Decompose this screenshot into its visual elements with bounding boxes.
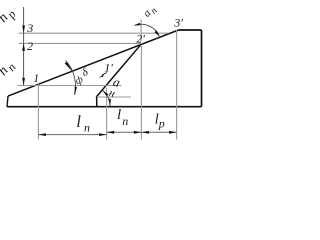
svg-text:3: 3 — [26, 21, 33, 35]
node 3 reference line — [19, 32, 169, 34]
dimension l_p (right) — [141, 131, 176, 133]
node 2 reference line — [19, 42, 141, 44]
svg-text:l: l — [76, 112, 81, 131]
dimension l_n (left) — [38, 134, 106, 136]
svg-text:2: 2 — [27, 39, 33, 53]
svg-text:n: n — [122, 114, 128, 128]
label d_f — [72, 66, 93, 87]
wire: top slanted face from left corner through 2' to 3' — [8, 30, 179, 96]
svg-text:n: n — [84, 121, 90, 135]
arrow down at line 1 — [22, 78, 25, 86]
wire: extension line at x=38.3 — [37, 84, 39, 140]
angle arc a_n — [102, 90, 110, 107]
label a_n — [107, 74, 122, 100]
arrow on slant for d_f — [65, 62, 73, 72]
wire: bottom edge of knife — [7, 106, 202, 108]
svg-text:1: 1 — [33, 71, 39, 85]
arrow up at line 2 — [22, 43, 25, 51]
label h_p — [0, 5, 19, 28]
wire: horizontal reference at bend — [97, 96, 131, 98]
svg-text:l: l — [117, 107, 121, 123]
svg-text:1': 1' — [104, 61, 113, 75]
wire: extension line above 2' — [140, 20, 142, 42]
arrow down at line 3 — [22, 26, 25, 34]
wire: ground bevel from bend to 2' — [97, 44, 142, 96]
arrow on bevel for a_n — [102, 90, 108, 96]
svg-text:3': 3' — [173, 16, 183, 30]
arrow at bottom for a_n — [109, 99, 111, 107]
wire: extension line under 3' — [176, 30, 178, 140]
dimension l_n (middle) — [107, 131, 142, 133]
angle arc a_p — [135, 24, 160, 36]
wire: right edge of knife — [201, 30, 203, 107]
angle arc d_f — [66, 61, 76, 95]
wire: left edge of knife — [7, 96, 8, 107]
label h_n — [0, 58, 19, 81]
node 1 reference line — [18, 85, 122, 87]
wire: vertical front face — [96, 97, 98, 107]
label a_p — [141, 3, 160, 22]
wire: top right horizontal edge — [179, 29, 202, 31]
wire: extension line under 2' — [140, 46, 142, 140]
arrow at vertical for a_p — [134, 23, 141, 26]
svg-text:2': 2' — [136, 31, 145, 45]
wire: vertical dimension line for h — [23, 7, 25, 85]
arrow at line1 for d_f — [75, 87, 77, 95]
arrow on slant for a_p — [155, 31, 160, 37]
wire: extension line at x=106.7 — [106, 88, 108, 140]
svg-text:p: p — [158, 117, 165, 131]
